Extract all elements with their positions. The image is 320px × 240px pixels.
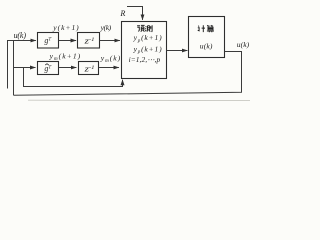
svg-text:u(k): u(k) bbox=[200, 41, 213, 50]
label jisuan char1 (pseudo CJK) bbox=[198, 25, 205, 32]
svg-text:y(k): y(k) bbox=[100, 23, 112, 32]
label jisuan char2 (pseudo CJK) bbox=[207, 25, 214, 32]
wire y(k) into predictor bbox=[100, 40, 120, 42]
svg-text:i=1,2,⋯,p: i=1,2,⋯,p bbox=[129, 55, 161, 64]
wire y(k+1) bbox=[59, 40, 77, 42]
label yuce char1 (pseudo CJK) bbox=[137, 25, 144, 31]
wire u(k) main into plant bbox=[8, 40, 36, 42]
block G2 model ghat^T bbox=[38, 62, 59, 75]
hat over g bbox=[45, 64, 49, 65]
block U1 predictor bbox=[122, 22, 167, 79]
scan artifact bottom line bbox=[28, 99, 250, 101]
wire u tap to predictor bottom bbox=[24, 68, 123, 87]
block U2 compute bbox=[189, 17, 225, 58]
wire yp to compute bbox=[167, 50, 188, 52]
wire ym(k) into predictor bbox=[99, 67, 119, 69]
wire ym(k+1) bbox=[59, 67, 77, 69]
wire V2 branch to model and feedback riser bbox=[13, 40, 15, 95]
wire R into predictor top bbox=[127, 7, 143, 20]
wire u(k) output and feedback loop bbox=[14, 52, 242, 96]
svg-text:y(k+1): y(k+1) bbox=[52, 23, 79, 32]
block Z2 delay z^-1 row2 bbox=[79, 62, 99, 75]
wire model input row bbox=[14, 67, 36, 69]
block G1 plant g^T bbox=[38, 33, 59, 49]
block Z1 delay z^-1 row1 bbox=[78, 33, 100, 49]
svg-text:u(k): u(k) bbox=[237, 40, 250, 49]
wire V1 riser (left vertical from u wire) bbox=[7, 40, 9, 89]
svg-text:R: R bbox=[119, 9, 125, 18]
label yuce char2 (pseudo CJK) bbox=[145, 25, 152, 32]
svg-text:u(k): u(k) bbox=[14, 31, 27, 40]
